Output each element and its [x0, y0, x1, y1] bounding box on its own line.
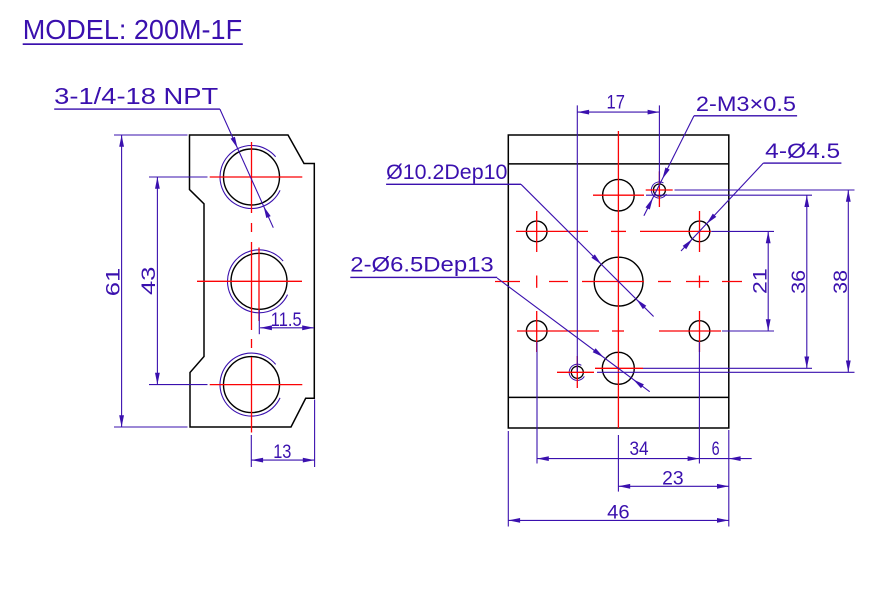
svg-text:3-1/4-18 NPT: 3-1/4-18 NPT — [54, 83, 218, 109]
svg-text:6: 6 — [712, 439, 720, 460]
thread arc bottom port — [220, 353, 280, 416]
centerline row upper mount holes — [516, 230, 711, 232]
extension line bottom edge — [114, 426, 188, 428]
mount hole bottom-right 4.5 dia — [689, 321, 710, 342]
svg-text:61: 61 — [103, 268, 124, 297]
dimension 38 — [831, 190, 852, 372]
crosshair M3 bottom — [557, 356, 594, 388]
extension line block left edge — [507, 431, 509, 527]
centerline row lower mount holes — [517, 330, 721, 332]
dimension 46 — [508, 503, 729, 524]
svg-text:2-M3×0.5: 2-M3×0.5 — [696, 93, 796, 116]
extension line top hole row — [646, 194, 812, 196]
svg-text:MODEL: 200M-1F: MODEL: 200M-1F — [23, 14, 242, 45]
tapped hole M3 top — [653, 184, 665, 196]
tapped hole M3 bottom — [571, 366, 583, 378]
svg-text:13: 13 — [273, 442, 291, 463]
dimension 61 — [103, 135, 124, 427]
svg-text:2-Ø6.5Dep13: 2-Ø6.5Dep13 — [350, 253, 493, 276]
manifold block outline — [508, 135, 729, 428]
extension line center column — [617, 435, 619, 492]
extension line bottom port axis down — [250, 435, 252, 467]
extension line M3 bottom column — [576, 105, 578, 372]
leader line NPT — [220, 109, 273, 228]
title text MODEL: 200M-1F — [23, 14, 243, 45]
dimension 6 — [712, 439, 752, 461]
svg-text:Ø10.2Dep10: Ø10.2Dep10 — [386, 161, 507, 184]
extension line M3 bottom row — [597, 371, 855, 373]
left view plate outline — [190, 135, 315, 427]
extension line right mount column — [698, 342, 700, 464]
mount hole top-left 4.5 dia — [526, 221, 547, 242]
svg-text:34: 34 — [630, 439, 649, 460]
svg-text:21: 21 — [750, 268, 771, 294]
label 0 10.2 Dep10 — [386, 161, 521, 185]
centerline horizontal bottom hole — [595, 367, 643, 369]
extension line bottom hole row — [643, 367, 812, 369]
dimension 11.5 — [260, 310, 314, 331]
thread arc M3 top — [651, 182, 666, 198]
centerline column right mount holes — [699, 211, 701, 352]
centerline column left mount holes — [536, 211, 538, 352]
extension line upper mount row — [711, 230, 774, 232]
dimension 43 — [139, 177, 160, 385]
centerline horizontal center row dashed — [495, 281, 742, 283]
svg-text:11.5: 11.5 — [271, 310, 302, 331]
leader line 10.2 hole — [521, 184, 654, 316]
svg-text:36: 36 — [789, 270, 810, 294]
leader line M3 holes — [644, 116, 694, 216]
dimension 23 — [618, 468, 728, 489]
label 2-M3x0.5 — [694, 93, 797, 116]
label 2-0 6.5 Dep13 — [350, 253, 497, 278]
extension line middle port down — [258, 310, 260, 334]
svg-text:23: 23 — [662, 468, 684, 489]
centerline horizontal top hole — [593, 194, 644, 196]
extension line lower mount row — [722, 330, 774, 332]
extension line top edge — [114, 134, 188, 136]
thread arc top port — [220, 145, 280, 208]
extension line bottom port center — [149, 384, 208, 386]
dimension 36 — [789, 195, 810, 368]
label 3-1/4-18 NPT — [54, 83, 220, 110]
label 4-0 4.5 — [763, 140, 841, 164]
dimension 13 — [251, 442, 314, 463]
hole bottom 6.5 dia — [602, 352, 634, 384]
svg-text:43: 43 — [139, 267, 160, 296]
hole center 10.2 dia — [594, 257, 643, 306]
extension line block right edge — [728, 430, 730, 527]
thread arc middle port — [228, 250, 288, 313]
dimension 17 — [577, 92, 659, 114]
extension line top port center — [149, 176, 208, 178]
centerline horizontal middle port — [197, 280, 302, 282]
dimension 21 — [750, 231, 771, 331]
leader line 4.5 holes — [681, 163, 763, 251]
centerline vertical middle port — [258, 248, 260, 322]
centerline horizontal bottom port — [210, 384, 303, 386]
extension line M3 top column — [658, 105, 660, 183]
centerline vertical block axis — [617, 131, 619, 428]
extension line left mount column — [536, 342, 538, 464]
leader line 6.5 holes — [497, 278, 650, 392]
svg-text:4-Ø4.5: 4-Ø4.5 — [765, 140, 840, 163]
centerline horizontal top port — [210, 176, 303, 178]
port hole top (1/4-18 NPT) — [224, 149, 280, 205]
port hole middle (1/4-18 NPT) — [231, 253, 287, 309]
extension line plate right edge down — [314, 400, 316, 468]
svg-text:17: 17 — [607, 92, 625, 113]
svg-text:38: 38 — [831, 270, 852, 294]
hole top 6.5 dia — [603, 179, 635, 211]
mount hole bottom-left 4.5 dia — [526, 321, 547, 342]
mount hole top-right 4.5 dia — [689, 221, 710, 242]
extension line M3 top row — [675, 189, 855, 191]
thread arc M3 bottom — [569, 364, 584, 380]
crosshair M3 top — [646, 171, 673, 207]
dimension 34 — [537, 439, 729, 461]
port hole bottom (1/4-18 NPT) — [224, 357, 280, 413]
svg-text:46: 46 — [607, 503, 630, 524]
centerline vertical common axis — [251, 142, 253, 433]
